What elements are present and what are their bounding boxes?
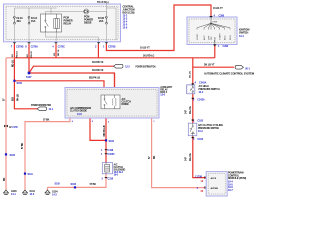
svg-text:DG-OG: DG-OG [189, 106, 192, 114]
svg-text:C103: C103 [197, 138, 203, 141]
svg-text:C290: C290 [223, 45, 229, 48]
svg-text:C1035: C1035 [108, 153, 116, 156]
svg-text:RUN: RUN [215, 36, 217, 41]
svg-text:C270C: C270C [58, 46, 66, 49]
svg-text:DIODE: DIODE [84, 22, 92, 25]
svg-text:12-2: 12-2 [125, 65, 130, 68]
svg-text:C290: C290 [219, 14, 225, 17]
svg-text:C175B: C175B [195, 175, 202, 178]
svg-text:RD-LG: RD-LG [17, 51, 19, 58]
svg-text:C270A: C270A [31, 46, 39, 49]
svg-text:19-7: 19-7 [228, 189, 233, 192]
svg-text:TO I.P. B(+): TO I.P. B(+) [97, 1, 109, 4]
svg-text:ON: ON [211, 36, 213, 40]
svg-text:S105: S105 [17, 82, 23, 85]
svg-text:POWER DISTRIBUTION: POWER DISTRIBUTION [31, 104, 51, 107]
svg-text:883 PK-LB: 883 PK-LB [103, 125, 106, 136]
svg-text:START: START [219, 32, 222, 40]
svg-text:PK-LB: PK-LB [17, 94, 20, 101]
svg-text:RD-YE: RD-YE [58, 49, 60, 56]
svg-text:30A: 30A [17, 20, 22, 23]
svg-text:C103: C103 [197, 119, 203, 122]
svg-text:16 LB-YT: 16 LB-YT [213, 7, 223, 10]
svg-text:50-1: 50-1 [245, 67, 250, 70]
svg-text:13-4: 13-4 [239, 35, 244, 38]
svg-text:C418: C418 [108, 149, 114, 152]
svg-text:CLUTCH DIODE: CLUTCH DIODE [70, 110, 87, 113]
svg-text:57 BK: 57 BK [43, 118, 50, 121]
svg-text:14-3: 14-3 [30, 193, 35, 196]
svg-text:AUTOMATIC CLIMATE CONTROL SYST: AUTOMATIC CLIMATE CONTROL SYSTEM [204, 72, 254, 75]
svg-text:PWR: PWR [213, 22, 218, 24]
svg-text:BK: BK [3, 177, 6, 181]
svg-text:13-6: 13-6 [123, 27, 128, 30]
svg-text:13-6: 13-6 [160, 93, 165, 96]
svg-text:361 RD-YE: 361 RD-YE [92, 69, 104, 72]
svg-text:10-2: 10-2 [198, 130, 203, 133]
svg-text:S107: S107 [26, 76, 32, 79]
svg-text:16 LB-YT: 16 LB-YT [140, 47, 150, 50]
svg-text:20A: 20A [99, 20, 104, 23]
svg-text:14-2: 14-2 [52, 194, 57, 197]
svg-text:RD-YE: RD-YE [31, 51, 33, 58]
svg-text:LOCK: LOCK [197, 34, 199, 40]
svg-text:S105: S105 [55, 183, 61, 186]
svg-text:C270B: C270B [108, 46, 116, 49]
svg-text:S111: S111 [28, 173, 34, 176]
svg-text:ACC: ACC [224, 35, 227, 40]
svg-text:S106: S106 [10, 154, 16, 157]
svg-text:S102: S102 [109, 140, 115, 143]
svg-text:OFF: OFF [208, 35, 210, 40]
svg-text:C316: C316 [108, 177, 114, 180]
svg-text:BK: BK [153, 155, 156, 159]
svg-text:361 RD-LG: 361 RD-LG [143, 55, 155, 58]
svg-text:57 BK: 57 BK [90, 183, 97, 186]
svg-text:DG-OG: DG-OG [190, 71, 192, 78]
svg-text:RUN: RUN [230, 35, 232, 40]
svg-text:C155: C155 [12, 126, 18, 129]
svg-text:C243A: C243A [199, 82, 207, 85]
svg-text:883 PK-LB: 883 PK-LB [89, 76, 100, 79]
svg-text:RELAY: RELAY [64, 23, 72, 26]
svg-text:S103: S103 [71, 183, 77, 186]
svg-text:POWER DISTRIBUTION: POWER DISTRIBUTION [136, 66, 156, 69]
svg-text:DIODE: DIODE [122, 103, 130, 106]
svg-text:ACPSW: ACPSW [211, 187, 218, 190]
svg-text:DK LB-YT: DK LB-YT [204, 64, 215, 67]
svg-text:RD-LG: RD-LG [12, 60, 15, 67]
svg-text:361 RD-YE: 361 RD-YE [92, 61, 104, 64]
svg-text:12-1: 12-1 [49, 108, 54, 111]
svg-text:10-2: 10-2 [199, 91, 204, 94]
svg-text:ACCS: ACCS [211, 177, 217, 180]
svg-text:57 BK: 57 BK [21, 142, 24, 149]
svg-text:15A: 15A [31, 20, 36, 23]
svg-text:19-6: 19-6 [114, 173, 119, 176]
svg-text:C243A: C243A [197, 98, 205, 101]
svg-text:ACC: ACC [203, 35, 206, 40]
svg-text:13-8: 13-8 [77, 113, 82, 116]
svg-text:DG-OG: DG-OG [189, 153, 192, 161]
svg-text:C270B: C270B [16, 46, 24, 49]
svg-text:14-1: 14-1 [11, 193, 16, 196]
